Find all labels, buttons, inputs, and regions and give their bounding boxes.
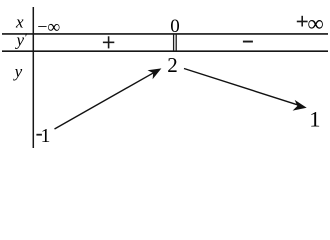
- plus sign in y' row (drawn): [103, 42, 114, 44]
- svg-text:1: 1: [309, 106, 320, 131]
- svg-text:y′: y′: [15, 30, 28, 50]
- vertical header separator line: [32, 7, 34, 148]
- falling variation arrow shaft from 2 toward 1: [184, 69, 299, 106]
- svg-text:x: x: [15, 13, 24, 32]
- rising arrow head: [148, 68, 162, 79]
- svg-text:2: 2: [167, 53, 178, 77]
- double bar at x=0 in y' row: [173, 34, 175, 51]
- minus sign in y' row (drawn): [243, 41, 253, 43]
- minus sign of -1 (drawn): [36, 134, 42, 136]
- horizontal line under y' row: [2, 50, 328, 52]
- falling arrow head: [293, 100, 307, 111]
- svg-text:1: 1: [41, 126, 51, 147]
- horizontal line under x row: [2, 33, 328, 35]
- rising variation arrow shaft from -1 toward 2: [55, 72, 156, 129]
- svg-text:∞: ∞: [307, 11, 323, 36]
- svg-text:0: 0: [170, 16, 180, 37]
- plus sign of plus infinity (drawn): [297, 21, 308, 23]
- svg-text:y: y: [13, 62, 23, 81]
- svg-text:−∞: −∞: [37, 16, 60, 36]
